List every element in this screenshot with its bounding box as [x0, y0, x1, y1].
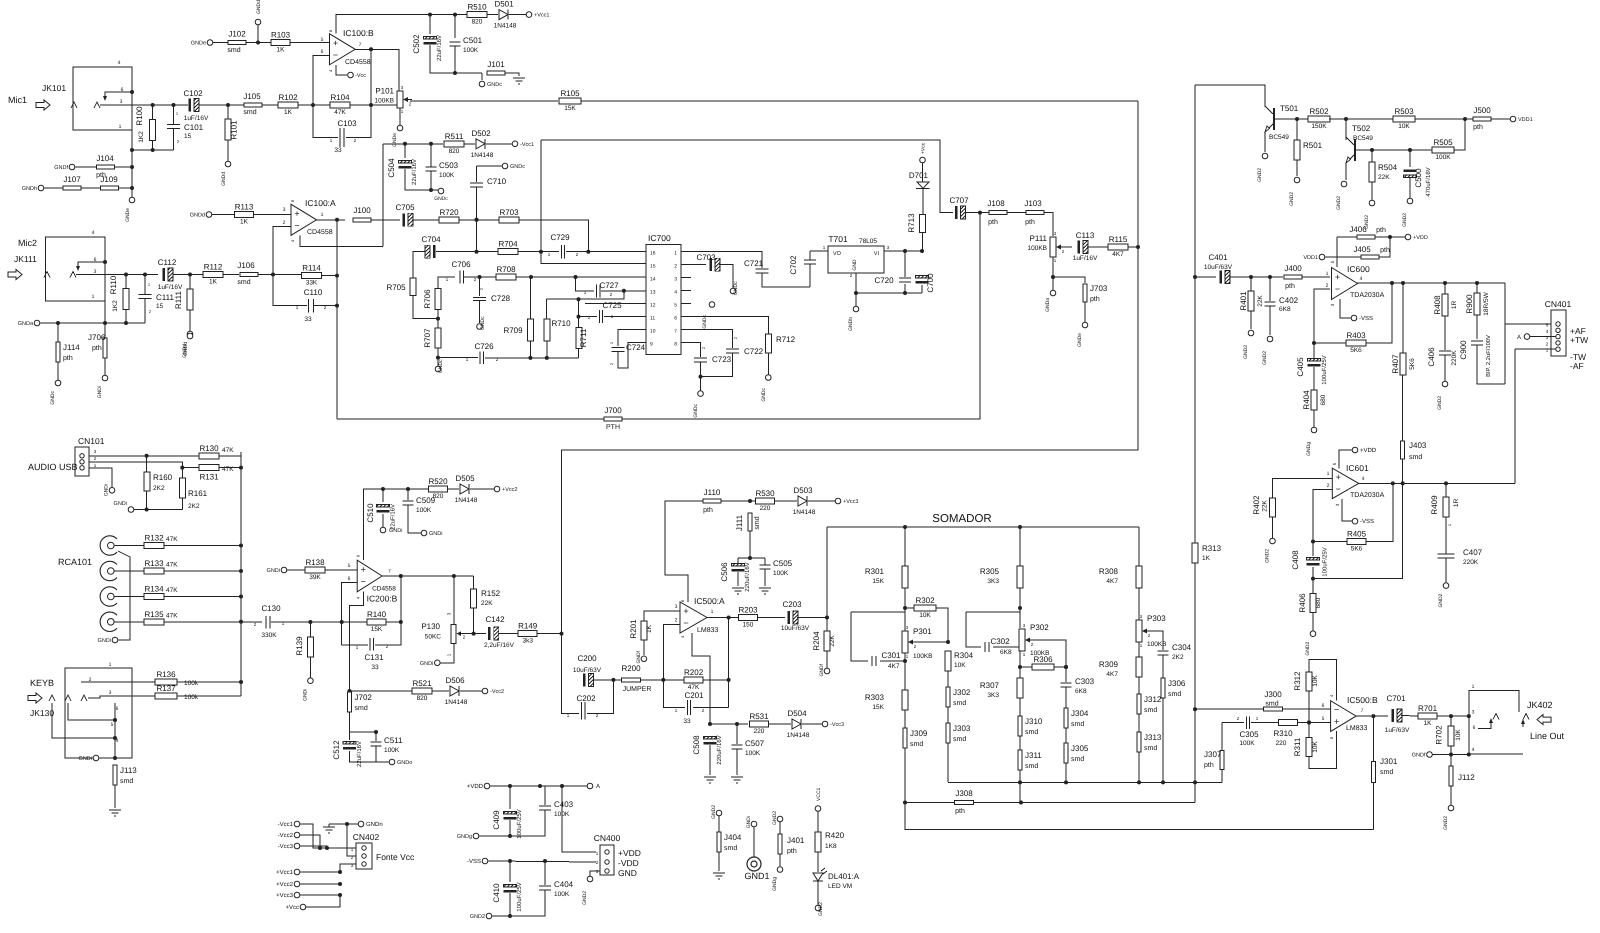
wire ic601 out	[1359, 481, 1515, 485]
wire r420 top	[817, 812, 819, 833]
resistor R111	[187, 289, 193, 310]
svg-text:J301: J301	[1380, 757, 1398, 766]
label GND cn400	[618, 868, 637, 878]
svg-text:220: 220	[760, 505, 771, 512]
label pin8 200	[356, 554, 361, 557]
svg-text:C201: C201	[684, 691, 704, 700]
jumper J109	[100, 175, 118, 190]
label pin8 a	[290, 199, 295, 202]
svg-text:JUMPER: JUMPER	[623, 686, 652, 693]
wire r140 left	[342, 621, 367, 623]
capacitor C101	[167, 125, 180, 129]
wire r703 right	[519, 220, 590, 254]
svg-text:GND2: GND2	[1443, 816, 1449, 830]
wire r301-p301	[903, 588, 907, 631]
wire c202 right	[587, 680, 613, 714]
label R306fix	[0, 0, 1, 1]
capacitor C900	[1459, 335, 1492, 377]
wire c403 stub	[544, 786, 546, 805]
svg-text:R309: R309	[1099, 660, 1119, 669]
svg-text:R133: R133	[144, 559, 164, 568]
wire c725 row l	[577, 315, 598, 319]
wire somador left	[826, 527, 828, 616]
svg-text:smd: smd	[1025, 728, 1038, 736]
wire r503-j500	[1415, 117, 1473, 121]
wire r305 top	[1019, 527, 1021, 566]
jumper J702	[348, 692, 373, 712]
svg-text:R131: R131	[199, 473, 219, 482]
svg-text:CN402: CN402	[353, 832, 380, 842]
capacitor C726	[466, 342, 499, 364]
label -AF	[1570, 361, 1584, 371]
svg-text:GNDc: GNDc	[487, 82, 502, 88]
svg-text:smd: smd	[1144, 744, 1157, 752]
wire c706-r708	[464, 275, 496, 279]
svg-text:680: 680	[1320, 394, 1327, 405]
wire r137 out	[177, 695, 241, 697]
wire x1505	[1504, 283, 1506, 384]
label R111	[174, 290, 183, 308]
svg-text:+: +	[294, 208, 299, 218]
wire r312 bot	[1307, 691, 1311, 725]
svg-text:150K: 150K	[1311, 123, 1327, 130]
svg-text:-Vcc3: -Vcc3	[830, 722, 844, 728]
svg-text:GNDc: GNDc	[510, 164, 525, 170]
label RCA101	[58, 557, 92, 567]
svg-text:C701: C701	[1386, 694, 1406, 703]
wire j700 right	[622, 213, 980, 419]
label R707	[423, 328, 432, 348]
wire c302 right	[993, 646, 1020, 648]
node VCC1 r420	[815, 787, 822, 811]
label JK111	[14, 254, 37, 264]
svg-text:D505: D505	[455, 474, 475, 483]
wire j703 bot	[1084, 302, 1086, 322]
svg-text:R313: R313	[1202, 544, 1222, 553]
label C304	[1172, 643, 1192, 661]
resistor R115	[1108, 235, 1128, 258]
svg-text:1: 1	[92, 294, 95, 300]
svg-text:−: −	[1336, 484, 1341, 494]
svg-text:smd: smd	[910, 740, 923, 748]
wire j114 bot	[57, 362, 59, 380]
label C509	[416, 496, 436, 514]
regulator T701	[823, 234, 890, 278]
wire r160 bot	[146, 491, 148, 510]
wire c729 row r	[566, 251, 646, 253]
jumper J404	[717, 832, 742, 852]
svg-text:D701: D701	[909, 171, 929, 180]
jumper J103	[1024, 199, 1044, 226]
svg-text:1N4148: 1N4148	[471, 152, 494, 159]
jumper J106	[237, 261, 258, 286]
wire r204 top	[826, 618, 828, 632]
wire keyb p2	[81, 681, 155, 683]
resistor R312	[1306, 672, 1312, 691]
diode D502	[471, 129, 494, 159]
wire c406 gnd	[1444, 355, 1446, 381]
label r131 value	[222, 466, 234, 473]
svg-text:pth: pth	[1025, 218, 1035, 226]
resistor R709	[527, 319, 533, 341]
wire p111 out	[1063, 246, 1072, 248]
jumper J304	[1064, 708, 1089, 728]
node GNDd r111	[183, 331, 193, 356]
svg-text:CD4558: CD4558	[307, 229, 333, 236]
wire fb x337	[336, 220, 338, 419]
wire c703 gnd	[719, 265, 733, 288]
svg-text:1: 1	[1472, 684, 1475, 690]
svg-text:R510: R510	[467, 3, 487, 12]
wire j113 bot	[114, 785, 116, 808]
wire j309 bot	[904, 748, 906, 803]
capacitor C203	[781, 600, 810, 632]
wire c301 right	[880, 660, 905, 662]
svg-text:pth: pth	[1473, 123, 1483, 131]
svg-text:1N4148: 1N4148	[793, 509, 816, 516]
svg-text:+VDD: +VDD	[618, 848, 641, 858]
svg-text:GNDe: GNDe	[1077, 333, 1083, 347]
resistor R136	[155, 670, 177, 685]
svg-text:R408: R408	[1433, 295, 1442, 315]
resistor R501	[1294, 140, 1300, 160]
wire pin6-r712	[691, 317, 768, 334]
svg-text:CN401: CN401	[1545, 299, 1572, 309]
resistor R114	[302, 264, 322, 287]
wire mixbus right	[560, 101, 1141, 680]
svg-text:-Vcc1: -Vcc1	[520, 142, 534, 148]
node GND2 c500	[1402, 198, 1413, 227]
svg-text:1uF/16V: 1uF/16V	[184, 115, 209, 122]
svg-text:smd: smd	[227, 46, 240, 54]
jumper R200	[621, 664, 651, 693]
svg-text:-Vcc3: -Vcc3	[278, 843, 294, 850]
wire c503 bot	[429, 171, 438, 192]
wire d501-term	[509, 14, 526, 16]
wire ic100a vee	[300, 235, 383, 246]
label pin4 b	[328, 69, 333, 72]
svg-text:R140: R140	[367, 610, 387, 619]
ground j404	[713, 873, 725, 879]
wire t502 base	[1357, 148, 1374, 152]
wire r152 branch	[473, 576, 475, 589]
svg-text:J102: J102	[228, 30, 246, 39]
wire r504 gnd	[1371, 182, 1373, 200]
wire r302 right	[936, 608, 950, 644]
svg-text:GNDi: GNDi	[104, 484, 110, 496]
wire r130 out	[219, 456, 241, 468]
svg-text:1: 1	[109, 662, 112, 668]
resistor R201	[641, 621, 647, 640]
svg-text:-AF: -AF	[1570, 361, 1584, 371]
wire j706 bot	[104, 358, 106, 375]
wire r504 stub	[1371, 150, 1373, 162]
svg-text:JK111: JK111	[14, 254, 37, 264]
svg-text:GNDc: GNDc	[693, 404, 699, 418]
jumper J312	[1137, 694, 1162, 714]
svg-text:6: 6	[116, 706, 119, 712]
resistor R530	[755, 489, 775, 512]
svg-text:1K: 1K	[209, 279, 218, 286]
resistor R132	[144, 534, 164, 549]
svg-text:smd: smd	[1025, 762, 1038, 770]
wire gnde-j102	[213, 42, 228, 44]
resistor R702	[1448, 726, 1454, 746]
node GNDa p111	[1045, 290, 1056, 312]
node -Vcc b	[348, 72, 367, 79]
wire j406 left	[1337, 236, 1357, 238]
svg-text:GNDi: GNDi	[114, 501, 127, 507]
svg-text:D502: D502	[471, 129, 491, 138]
wire r408 top	[1444, 283, 1446, 294]
wire gndi rail	[134, 508, 182, 512]
label CD4558 a	[307, 229, 333, 236]
svg-text:12: 12	[650, 303, 656, 309]
wire c202 loop	[562, 680, 580, 714]
svg-text:JK101: JK101	[42, 83, 66, 93]
svg-text:100uF/25V: 100uF/25V	[1321, 355, 1328, 384]
wire r710 top	[545, 299, 547, 319]
svg-text:R135: R135	[144, 610, 164, 619]
wire c702 top	[809, 251, 811, 260]
svg-text:pth: pth	[1204, 761, 1214, 769]
label T502	[1352, 124, 1371, 133]
svg-text:+Vcc: +Vcc	[285, 904, 299, 911]
jumper J700	[604, 406, 622, 431]
capacitor C700	[916, 276, 929, 284]
svg-text:GNDi: GNDi	[267, 568, 280, 574]
ground c508	[704, 777, 716, 783]
label C407	[1463, 548, 1483, 566]
svg-text:R520: R520	[428, 477, 448, 486]
wire r406 gnd	[1312, 613, 1314, 631]
svg-text:R702: R702	[1435, 725, 1444, 745]
svg-text:IC500:A: IC500:A	[694, 596, 725, 606]
svg-text:100K: 100K	[439, 172, 455, 179]
wire j109-bus	[118, 187, 132, 189]
wire c403 bot	[508, 810, 545, 838]
wire r306 right	[1054, 665, 1068, 669]
wire c511 top	[350, 730, 379, 741]
svg-text:GND1: GND1	[744, 871, 769, 881]
svg-text:+: +	[333, 38, 338, 48]
svg-text:GNDg: GNDg	[772, 877, 778, 891]
svg-text:33: 33	[371, 664, 379, 671]
svg-text:−: −	[294, 220, 299, 230]
label C700	[926, 273, 935, 293]
wire j400-ic600	[1302, 276, 1330, 278]
wire r308-p303	[1138, 588, 1140, 620]
label BC549 t501	[1269, 134, 1289, 141]
wire j500 out	[1491, 118, 1510, 120]
wire j305 bot	[1065, 763, 1067, 782]
svg-text:R139: R139	[295, 636, 304, 656]
svg-text:pth: pth	[988, 218, 998, 226]
svg-text:GNDi: GNDi	[746, 816, 752, 828]
label C507	[745, 739, 765, 757]
node GNDe j703	[1077, 322, 1088, 347]
svg-text:J303: J303	[953, 724, 971, 733]
label R504	[1378, 163, 1398, 181]
capacitor C200	[573, 654, 602, 686]
wire mic2 bus	[104, 301, 106, 323]
wire +vcc3w	[300, 894, 340, 896]
label AUDIO USB	[28, 462, 78, 472]
jumper J313	[1137, 732, 1162, 752]
resistor R531	[749, 712, 769, 735]
svg-text:C502: C502	[412, 34, 421, 54]
wire r139 top	[309, 622, 311, 637]
wire c401-j400	[1229, 275, 1283, 279]
wire c142-r149	[498, 633, 518, 635]
node +Vcc3 d503	[835, 498, 858, 505]
svg-text:2,2uF/16V: 2,2uF/16V	[484, 642, 515, 649]
wire r301 top	[904, 527, 906, 566]
wire vert 1195	[1194, 85, 1196, 277]
wire c503 stub	[430, 144, 432, 167]
rca jack 3	[100, 587, 117, 606]
node GNDc j101	[479, 81, 502, 88]
node GNDc r712	[761, 375, 771, 402]
svg-text:330K: 330K	[261, 632, 277, 639]
svg-text:GNDa: GNDa	[1045, 298, 1051, 312]
wire p101 out	[410, 100, 558, 102]
wire c502 bot	[430, 45, 482, 73]
wire r305-p302	[1018, 588, 1022, 628]
svg-text:JK402: JK402	[1527, 700, 1553, 710]
capacitor C702	[804, 260, 816, 264]
capacitor C305	[1237, 716, 1259, 747]
svg-text:R712: R712	[776, 335, 796, 344]
label R713	[907, 213, 916, 233]
wire ic100b vcc	[336, 15, 430, 34]
label R310	[1273, 729, 1293, 747]
svg-text:R202: R202	[684, 668, 704, 677]
node A cn401	[1517, 334, 1530, 341]
label R100	[135, 106, 145, 143]
svg-text:1K8: 1K8	[825, 843, 837, 850]
svg-text:4: 4	[1360, 276, 1363, 282]
svg-text:3K3: 3K3	[987, 692, 999, 699]
wire c101 top	[173, 105, 175, 124]
wire ic601 pin5	[1339, 450, 1352, 469]
wire r511-d502	[464, 143, 475, 145]
svg-text:15K: 15K	[564, 105, 576, 112]
capacitor C401	[1208, 253, 1230, 284]
wire j306 bot	[1162, 698, 1164, 782]
wire j303 bot	[947, 743, 949, 782]
node GNDi p130	[420, 660, 440, 667]
svg-text:14: 14	[650, 277, 656, 283]
svg-text:+: +	[1334, 717, 1339, 727]
node GNDd mid	[182, 333, 193, 358]
wire d505 out	[470, 488, 494, 490]
label C511	[384, 736, 403, 754]
wire c113-r115	[1087, 246, 1108, 248]
capacitor C408	[1307, 558, 1320, 566]
svg-text:GNDf: GNDf	[1412, 753, 1426, 759]
diode D501	[494, 0, 517, 30]
label p301 val	[913, 653, 933, 660]
node GND2 c406	[1437, 381, 1448, 410]
wire r720-r703	[459, 218, 499, 222]
svg-text:-VSS: -VSS	[1359, 315, 1373, 322]
capacitor C102	[183, 89, 209, 122]
svg-text:GND2: GND2	[582, 891, 588, 905]
node GNDi j706	[97, 375, 108, 398]
wire j300 feed	[1193, 707, 1264, 711]
svg-text:J110: J110	[704, 488, 721, 497]
svg-text:100KB: 100KB	[913, 653, 933, 660]
label C510	[366, 503, 397, 530]
svg-text:6: 6	[348, 576, 351, 582]
wire c710 top	[477, 165, 503, 167]
svg-text:-Vcc2: -Vcc2	[278, 832, 294, 839]
svg-text:J400: J400	[1284, 264, 1302, 273]
label C702	[789, 255, 798, 275]
node GNDi r138	[267, 567, 287, 574]
resistor R403	[1346, 331, 1366, 354]
wire keyb p5	[68, 703, 117, 722]
resistor R511	[444, 132, 464, 155]
wire r702-j112	[1450, 746, 1452, 766]
svg-text:C410: C410	[492, 883, 501, 903]
wire j703 top	[1053, 277, 1085, 283]
svg-text:GNDc: GNDc	[434, 196, 448, 202]
wire r407 top	[1402, 283, 1404, 353]
resistor R302	[914, 596, 936, 619]
resistor R406	[1310, 594, 1316, 613]
label R308	[1099, 567, 1119, 585]
svg-text:R104: R104	[330, 93, 350, 102]
resistor R706	[435, 289, 441, 310]
svg-text:C508: C508	[692, 735, 701, 755]
diode D701	[909, 171, 930, 189]
jumper J105	[243, 92, 262, 116]
wire r110 top	[125, 275, 127, 289]
capacitor C701	[1385, 694, 1410, 734]
wire neg rail	[383, 142, 443, 146]
wire r521 row	[350, 690, 413, 692]
wire c725 row r	[604, 316, 646, 318]
wire r201 top	[644, 611, 680, 621]
wire gndf-j104	[75, 166, 96, 168]
svg-text:C111: C111	[156, 293, 174, 302]
svg-text:smd: smd	[953, 699, 966, 707]
capacitor C110	[296, 288, 327, 323]
resistor R203	[738, 606, 758, 629]
jumper J107	[63, 175, 81, 190]
svg-text:R115: R115	[1109, 235, 1128, 244]
wire c504 stub	[404, 144, 406, 158]
node +Vcc1 d501	[526, 12, 549, 19]
node +VDD j406	[1405, 234, 1428, 241]
label R305	[980, 567, 1000, 585]
connector JK402	[1469, 684, 1529, 754]
svg-text:smd: smd	[1144, 706, 1157, 714]
wire j404 bot	[718, 852, 720, 871]
wire c508 row	[710, 722, 748, 726]
wire ic700 rpin7	[681, 329, 691, 331]
resistor R303	[902, 690, 908, 710]
svg-text:4: 4	[1362, 476, 1365, 482]
svg-text:R530: R530	[755, 489, 775, 498]
svg-text:+Vcc2: +Vcc2	[502, 487, 517, 493]
wire p301 bot	[903, 653, 907, 690]
node GND2 c407	[1438, 583, 1449, 608]
svg-text:IC601: IC601	[1346, 463, 1369, 473]
wire j311 bot	[1019, 770, 1021, 803]
